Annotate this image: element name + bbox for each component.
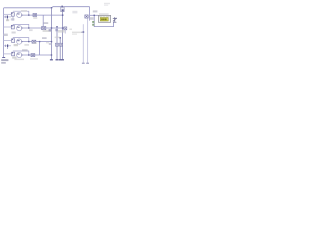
node row1/V4	[62, 14, 64, 16]
wire left supply bus	[3, 8, 5, 57]
row 2 : bus to resistor wire	[4, 26, 12, 28]
label bottom caption a	[14, 59, 24, 61]
wire row4 output	[22, 54, 52, 56]
label above meter	[99, 13, 109, 14]
emitter wire Q1	[12, 16, 14, 21]
row 4 : bus to resistor wire	[4, 53, 12, 55]
ground tick V1	[50, 59, 53, 61]
resistor R3	[12, 39, 15, 43]
label right of link	[46, 42, 49, 43]
wire top rail right	[52, 7, 90, 8]
label mid row2	[58, 30, 65, 33]
vertical net V4	[62, 11, 64, 59]
component marks below row2 junctions	[49, 29, 52, 31]
ground tick V4	[61, 59, 64, 61]
label above row1 wire	[21, 10, 27, 12]
node probe A	[83, 31, 85, 33]
terminal marks left of meter loop	[92, 21, 94, 23]
label bottom caption b	[30, 58, 38, 60]
row 4 : top feedback wire	[13, 51, 29, 55]
label bottom left line2	[1, 62, 6, 64]
node V1 top	[51, 7, 52, 8]
label after row2 corner	[29, 29, 33, 31]
label right mid text	[72, 32, 81, 33]
label below Q4	[12, 57, 16, 59]
transistor Q4	[17, 52, 22, 57]
component D1 on extension	[64, 27, 67, 30]
resistor R1	[11, 13, 14, 17]
component marker near V5 top	[85, 15, 88, 18]
meter M1 digits	[101, 19, 102, 21]
meter M1 top strip	[99, 16, 102, 17]
label below Q3	[14, 44, 18, 46]
row 3 : bus to resistor wire	[4, 40, 12, 42]
probe tick B	[86, 62, 89, 64]
resistor R2	[11, 25, 14, 29]
probe wire A (faint)	[82, 24, 84, 63]
node feedback corners	[28, 14, 29, 15]
vertical net V3	[59, 37, 61, 59]
label above meter pin	[93, 10, 98, 12]
row 2 : top feedback wire	[13, 24, 29, 28]
label top right corner	[104, 3, 110, 4]
label bottom left line1	[1, 59, 8, 61]
label far top right area	[72, 11, 77, 14]
wire D1 stub down	[64, 30, 66, 34]
row 3 : top feedback wire	[13, 38, 29, 42]
meter M1 LCD	[100, 18, 108, 22]
ground tick V2	[56, 59, 59, 61]
node row4/V1	[51, 54, 52, 55]
vertical net V1	[51, 8, 53, 59]
label mid small	[55, 37, 60, 39]
capacitor C4	[31, 54, 35, 57]
label row3 left of V1	[42, 37, 47, 39]
wire row1 output	[22, 14, 63, 16]
vertical link row1-row2	[42, 15, 44, 28]
wire right drop to meter	[89, 7, 91, 21]
meter M1 body	[98, 15, 110, 22]
probe tick A	[82, 62, 85, 64]
vertical link row3-row4	[39, 42, 41, 55]
capacitor C6 input row3	[4, 44, 11, 49]
label left margin	[3, 34, 7, 36]
row 1 : bus to resistor wire	[4, 13, 12, 15]
wire row3 output	[22, 41, 52, 43]
label below C5	[6, 19, 9, 21]
label above row4	[22, 49, 28, 51]
label near link top	[33, 43, 37, 44]
wire meter left pin	[90, 14, 99, 16]
capacitor C3	[32, 40, 36, 43]
wire top rail left	[4, 7, 52, 9]
capacitor C2	[42, 27, 46, 30]
label below C2	[43, 30, 52, 32]
symbol S1 right of meter	[113, 17, 117, 22]
node row2/V4	[62, 27, 64, 29]
label right of V5	[90, 17, 94, 20]
transistor Q2	[17, 26, 22, 31]
wire row2 output	[22, 27, 63, 29]
transistor Q1	[17, 12, 22, 17]
row 1 : top feedback wire	[13, 11, 29, 15]
node meter pin junction	[94, 15, 95, 16]
wire meter bottom loop	[94, 15, 113, 26]
node row3/link	[39, 41, 40, 42]
component X1 hanging on top rail	[61, 6, 65, 12]
vertical net V2	[56, 26, 58, 59]
label above C2	[44, 22, 49, 24]
resistor R4	[12, 52, 15, 56]
label below Q1	[11, 18, 15, 20]
wire row2 extension	[63, 27, 66, 29]
label below C1	[33, 17, 37, 19]
label below R2	[12, 32, 16, 34]
capacitor C1	[33, 14, 37, 17]
capacitor C5 input row1	[4, 16, 11, 21]
ground tick V3	[59, 59, 62, 61]
label mid row3	[56, 43, 59, 46]
label right of D1	[69, 29, 72, 31]
transistor Q3	[17, 39, 22, 44]
node row2/V1	[51, 27, 52, 28]
label right of Q3	[24, 44, 29, 46]
probe wire B (faint)	[87, 18, 89, 63]
node row3/V1	[51, 41, 52, 42]
